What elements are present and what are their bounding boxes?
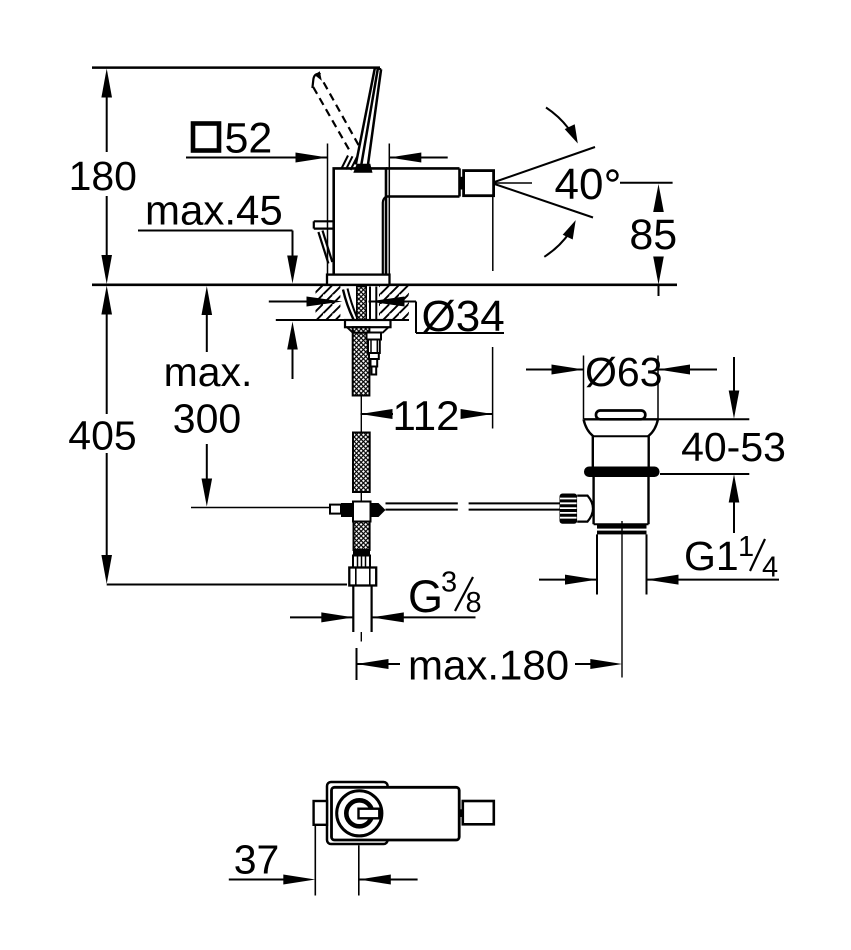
dimension 112: [361, 347, 493, 439]
svg-text:300: 300: [173, 396, 241, 442]
svg-text:40: 40: [555, 160, 604, 209]
dimension diameter 34: [269, 292, 505, 341]
mounting stud stack: [367, 333, 382, 375]
svg-text:8: 8: [466, 587, 482, 619]
counter cross-section hatched right block: [379, 286, 409, 321]
svg-text:G1: G1: [684, 533, 739, 579]
plan view spout: [332, 787, 460, 840]
mounting washer: [345, 320, 391, 327]
spray fan 40 degrees: [495, 108, 673, 257]
dimension 37: [229, 825, 418, 896]
pop-up rod clamp fitting: [330, 502, 386, 522]
svg-text:G: G: [408, 571, 443, 622]
svg-text:40-53: 40-53: [681, 424, 786, 470]
counter cross-section hatched left block: [276, 286, 409, 321]
dimension 405: [68, 286, 347, 585]
drain retaining bands: [597, 525, 647, 529]
spout: [383, 168, 460, 274]
svg-text:3: 3: [441, 567, 457, 599]
braided hose lower: [353, 433, 370, 493]
dimension max.300: [164, 286, 330, 508]
dimension max.180: [357, 642, 623, 689]
aerator nozzle: [460, 171, 493, 271]
drain tailpipe: [597, 521, 647, 678]
drain cap: [596, 411, 645, 420]
body side clip lever: [314, 221, 334, 263]
svg-text:112: 112: [393, 392, 460, 439]
lever handle dashed alternate position: [312, 71, 359, 150]
hose crimp sleeve: [353, 550, 370, 568]
dimension max.45: [138, 187, 298, 380]
drain knurled knob: [560, 494, 578, 524]
faucet body: [327, 168, 390, 284]
washer cone: [347, 327, 389, 333]
drain knob connector: [577, 496, 593, 522]
svg-text:405: 405: [68, 412, 136, 458]
top reference line: [92, 66, 380, 69]
hose end tube G3/8: [353, 586, 371, 633]
drain bell: [584, 419, 659, 466]
plan view inner ring: [346, 800, 372, 826]
threaded shank in hole: [343, 287, 376, 322]
svg-text:52: 52: [225, 115, 273, 163]
svg-text:4: 4: [762, 552, 778, 584]
plan view left tab: [314, 801, 327, 825]
dimension G1 1/4: [539, 531, 779, 585]
dimension 85: [629, 184, 677, 296]
square52 extension lines: [327, 144, 329, 275]
drain pop-up waste: dimension diameter 63: [526, 349, 717, 419]
counter top line: [92, 283, 677, 286]
svg-text:Ø63: Ø63: [585, 349, 663, 395]
svg-text:max.180: max.180: [408, 642, 569, 689]
drain flange: [584, 467, 660, 478]
pop-up rod horizontal: [386, 503, 560, 509]
dimension 40-53: [658, 357, 786, 533]
plan view faucet body square: [327, 782, 388, 844]
braided hose upper: [353, 327, 370, 395]
plan view nozzle: [463, 801, 494, 824]
plan view outer circle: [337, 791, 382, 836]
plan view nozzle joint tick: [460, 809, 463, 817]
hose hex nut: [349, 568, 376, 586]
svg-text:37: 37: [234, 837, 280, 883]
drain body: [594, 477, 649, 524]
lever handle solid: [342, 68, 382, 173]
svg-text:max.45: max.45: [145, 187, 283, 234]
svg-text:85: 85: [629, 211, 677, 259]
svg-text:1: 1: [738, 531, 754, 563]
dimension 180: [69, 69, 137, 285]
plan view handle bar slot: [359, 809, 380, 819]
svg-text:max.: max.: [164, 349, 253, 395]
svg-text:180: 180: [69, 153, 137, 199]
dimension G3/8: [290, 567, 482, 623]
braided hose third segment: [354, 522, 370, 551]
dimension square 52: [186, 115, 448, 163]
svg-text:Ø34: Ø34: [422, 292, 505, 341]
hose center line segments: [360, 396, 362, 642]
